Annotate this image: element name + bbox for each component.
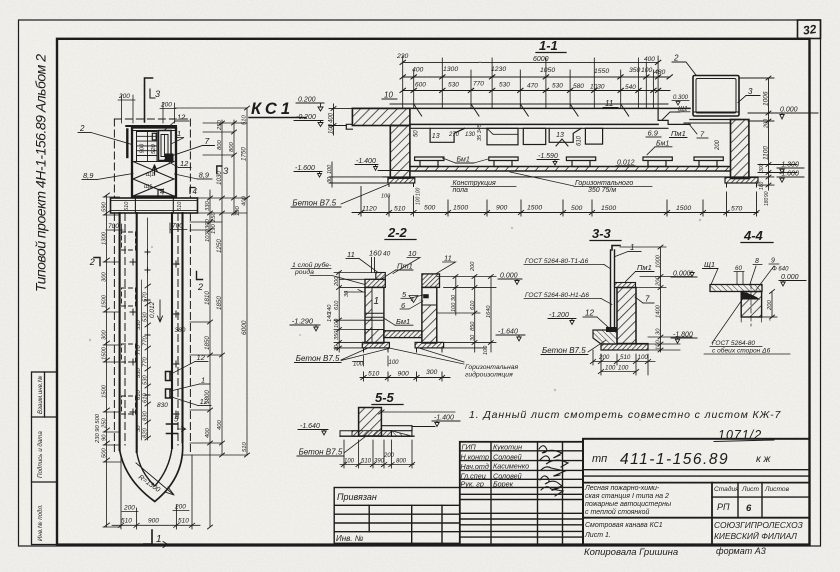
svg-text:7: 7 — [645, 295, 650, 304]
svg-text:35 345: 35 345 — [477, 123, 483, 141]
deck band long lines — [352, 104, 690, 128]
svg-text:-1.640: -1.640 — [498, 329, 518, 336]
svg-text:Соловей: Соловей — [493, 452, 522, 461]
svg-text:2-2: 2-2 — [387, 225, 408, 240]
svg-text:Копировала Гришина: Копировала Гришина — [584, 547, 678, 558]
svg-text:4-4: 4-4 — [743, 228, 764, 243]
left wall top small cap — [376, 273, 386, 280]
svg-text:400: 400 — [644, 56, 655, 63]
svg-text:-1.200: -1.200 — [549, 312, 569, 319]
left attribute strip boxes — [32, 372, 58, 545]
svg-text:250: 250 — [102, 418, 108, 429]
svg-text:350: 350 — [334, 330, 340, 340]
dashed center marks — [741, 284, 761, 326]
svg-text:510: 510 — [368, 371, 380, 378]
svg-text:1500: 1500 — [102, 346, 108, 360]
svg-text:270: 270 — [448, 132, 460, 138]
svg-text:520: 520 — [151, 144, 157, 154]
names table texts — [461, 443, 530, 489]
svg-text:0.000: 0.000 — [500, 273, 518, 280]
svg-text:3: 3 — [155, 89, 160, 99]
svg-text:200: 200 — [160, 102, 172, 109]
svg-text:1-1: 1-1 — [539, 38, 558, 53]
right wall top cap — [422, 274, 440, 288]
svg-text:190: 190 — [235, 206, 241, 216]
right entry: steps — [658, 108, 690, 124]
svg-text:610: 610 — [577, 135, 583, 146]
svg-text:100: 100 — [389, 360, 400, 366]
svg-text:510: 510 — [242, 442, 248, 452]
svg-text:ская станция I типа на 2: ская станция I типа на 2 — [585, 493, 669, 500]
svg-text:0,012: 0,012 — [149, 301, 156, 318]
svg-text:610: 610 — [470, 300, 476, 310]
svg-text:100: 100 — [327, 164, 333, 174]
svg-text:13: 13 — [556, 132, 564, 139]
anchor detail at wall base — [606, 327, 617, 332]
svg-text:1500: 1500 — [601, 205, 616, 212]
top dim chain lines — [390, 62, 670, 104]
dashed outline around head — [114, 119, 190, 453]
opening box middle1 — [487, 128, 518, 145]
inner drawing frame — [57, 39, 810, 545]
svg-text:1640: 1640 — [486, 305, 492, 318]
svg-text:540: 540 — [625, 84, 636, 91]
svg-text:1500: 1500 — [676, 205, 691, 212]
svg-text:2: 2 — [673, 54, 679, 63]
svg-text:Бетон В7.5: Бетон В7.5 — [296, 354, 340, 363]
svg-text:1. Данный лист смотреть совмес: 1. Данный лист смотреть совместно с лист… — [469, 409, 782, 421]
stage table — [714, 485, 790, 493]
svg-text:770: 770 — [473, 81, 484, 88]
dim tick slashes — [400, 60, 672, 92]
svg-text:4: 4 — [193, 187, 198, 196]
names table columns — [490, 442, 492, 545]
svg-text:1100: 1100 — [763, 146, 770, 160]
svg-text:Лесная пожарно-хими-: Лесная пожарно-хими- — [584, 485, 660, 492]
section cut marks 2 — [94, 258, 100, 266]
svg-text:КС1: КС1 — [251, 100, 294, 118]
title block outline — [583, 439, 810, 545]
niche dashed boxes on left wall — [122, 232, 136, 414]
svg-text:1500: 1500 — [527, 205, 542, 212]
svg-text:Щ1: Щ1 — [144, 184, 152, 190]
svg-text:3: 3 — [223, 166, 229, 177]
head box — [132, 128, 176, 197]
svg-text:Конструкция: Конструкция — [453, 180, 496, 187]
svg-text:1: 1 — [374, 296, 380, 307]
svg-text:1030: 1030 — [205, 228, 211, 242]
svg-text:900: 900 — [140, 143, 146, 153]
svg-text:1500: 1500 — [453, 205, 468, 212]
svg-text:700: 700 — [108, 223, 119, 230]
svg-text:1400: 1400 — [656, 304, 662, 318]
left wall hatched — [390, 126, 410, 179]
svg-text:7: 7 — [205, 136, 210, 146]
svg-text:Инв.№ подл.: Инв.№ подл. — [37, 504, 44, 541]
svg-text:ГОСТ 5264-80: ГОСТ 5264-80 — [712, 340, 755, 347]
svg-text:230: 230 — [396, 53, 409, 60]
svg-text:330: 330 — [136, 320, 142, 330]
right footing — [725, 178, 758, 184]
svg-text:30: 30 — [334, 344, 340, 351]
svg-text:500: 500 — [424, 205, 436, 212]
svg-text:300: 300 — [102, 330, 108, 340]
top plate — [710, 285, 762, 292]
right dim column — [739, 76, 797, 190]
svg-text:160: 160 — [759, 181, 765, 190]
svg-text:140: 140 — [327, 312, 333, 322]
svg-text:Н.контр: Н.контр — [461, 452, 489, 461]
floor hatch ticks — [415, 167, 729, 172]
svg-text:3-3: 3-3 — [592, 226, 612, 241]
svg-text:770: 770 — [143, 357, 149, 367]
scan specks — [89, 61, 771, 476]
svg-text:8: 8 — [755, 258, 759, 265]
svg-text:0.200: 0.200 — [298, 97, 316, 104]
svg-text:2: 2 — [79, 124, 85, 133]
left cap dim tail — [340, 286, 365, 288]
bottom dim row — [360, 372, 450, 381]
collar band — [111, 198, 198, 213]
left chain horizontal tails — [103, 197, 121, 527]
svg-text:12: 12 — [197, 353, 206, 362]
svg-text:ГОСТ 5264-80-Н1-Δ6: ГОСТ 5264-80-Н1-Δ6 — [525, 292, 589, 299]
svg-text:Горизонтального: Горизонтального — [575, 180, 633, 187]
svg-text:580: 580 — [573, 83, 584, 90]
svg-text:300: 300 — [426, 369, 438, 376]
far-left dim chain — [106, 195, 108, 527]
svg-text:590: 590 — [102, 202, 108, 212]
svg-text:6.9: 6.9 — [648, 129, 659, 138]
svg-text:530: 530 — [448, 82, 459, 89]
weld wedge — [742, 292, 761, 300]
interior dim chain — [147, 218, 149, 440]
names table outline — [460, 442, 583, 545]
svg-text:400: 400 — [217, 420, 223, 430]
svg-text:610: 610 — [334, 300, 340, 310]
dark fixture at niche base — [165, 154, 174, 162]
opening box middle2 — [523, 128, 545, 144]
svg-text:6: 6 — [746, 503, 752, 514]
big cell dividers — [583, 469, 810, 471]
svg-text:тп: тп — [592, 453, 607, 465]
svg-text:800: 800 — [396, 459, 407, 465]
svg-text:1: 1 — [201, 376, 205, 385]
svg-text:1: 1 — [177, 129, 181, 138]
svg-text:510: 510 — [361, 459, 372, 465]
svg-text:1006: 1006 — [763, 91, 770, 106]
interior floor slab — [384, 331, 422, 338]
svg-text:СОЮЗГИПРОЛЕСХОЗ: СОЮЗГИПРОЛЕСХОЗ — [714, 520, 803, 530]
svg-text:160: 160 — [369, 249, 382, 258]
grid verticals — [403, 56, 658, 112]
svg-text:100: 100 — [605, 365, 616, 372]
svg-text:1300: 1300 — [204, 390, 211, 404]
svg-text:1500: 1500 — [102, 384, 108, 398]
svg-text:ГИП: ГИП — [462, 443, 477, 452]
svg-text:100: 100 — [353, 362, 364, 368]
svg-text:1 слой рубе-: 1 слой рубе- — [292, 261, 332, 269]
svg-text:1850: 1850 — [216, 296, 223, 310]
svg-text:1: 1 — [630, 243, 634, 252]
svg-text:510: 510 — [242, 115, 248, 125]
svg-text:12: 12 — [180, 159, 189, 168]
svg-text:Щ1: Щ1 — [146, 172, 154, 178]
svg-text:30: 30 — [327, 176, 333, 183]
svg-text:пожарные автоцистерны: пожарные автоцистерны — [585, 501, 672, 508]
svg-text:Щ1: Щ1 — [704, 260, 715, 269]
svg-text:Типовой проект 4Н-1-156.89 Ал: Типовой проект 4Н-1-156.89 Альбом 2 — [33, 54, 49, 292]
svg-text:1000: 1000 — [656, 254, 662, 268]
svg-text:ГОСТ 5264-80-Т1-Δ6: ГОСТ 5264-80-Т1-Δ6 — [525, 258, 589, 265]
svg-text:1120: 1120 — [362, 206, 377, 213]
svg-text:400: 400 — [242, 196, 248, 206]
svg-text:530: 530 — [143, 312, 149, 322]
svg-text:8,9: 8,9 — [199, 171, 210, 180]
svg-text:1750: 1750 — [241, 147, 248, 161]
svg-text:-1.640: -1.640 — [300, 423, 320, 430]
svg-text:Бетон В7.5: Бетон В7.5 — [292, 199, 336, 208]
svg-text:1030: 1030 — [590, 84, 605, 91]
svg-text:1550: 1550 — [594, 68, 609, 75]
svg-text:130: 130 — [465, 132, 476, 138]
svg-text:350 75/м: 350 75/м — [588, 187, 616, 194]
svg-text:9: 9 — [771, 258, 775, 265]
base line — [340, 435, 414, 437]
svg-text:570: 570 — [143, 292, 149, 302]
svg-text:400: 400 — [412, 67, 424, 74]
svg-text:к ж: к ж — [756, 454, 772, 465]
cross braces — [133, 162, 174, 197]
svg-text:510: 510 — [124, 201, 130, 211]
svg-text:12: 12 — [585, 309, 594, 318]
svg-text:100: 100 — [334, 318, 340, 328]
page number box top-right — [798, 20, 821, 39]
svg-text:Бм1: Бм1 — [396, 317, 410, 326]
right footing — [415, 342, 444, 348]
left vertical bar near head — [126, 130, 128, 158]
svg-text:330: 330 — [205, 201, 211, 211]
wall hatched — [617, 288, 636, 344]
svg-text:390: 390 — [374, 459, 385, 465]
svg-text:470: 470 — [527, 83, 538, 90]
wall plus marks — [130, 259, 179, 417]
svg-text:510: 510 — [394, 206, 406, 213]
svg-text:Кукотин: Кукотин — [493, 443, 522, 452]
hatched block — [359, 408, 382, 437]
ladder niche — [159, 131, 172, 161]
C-brackets on right wall — [166, 372, 173, 399]
svg-text:1500: 1500 — [102, 294, 108, 308]
svg-text:300: 300 — [759, 163, 765, 172]
svg-text:Пм1: Пм1 — [637, 263, 652, 272]
pedestals Бм1 — [415, 157, 724, 167]
svg-text:КИЕВСКИЙ ФИЛИАЛ: КИЕВСКИЙ ФИЛИАЛ — [714, 530, 797, 541]
svg-text:90: 90 — [764, 191, 770, 197]
svg-text:480: 480 — [654, 69, 666, 76]
right dim column — [620, 245, 692, 352]
svg-text:411-1-156.89: 411-1-156.89 — [620, 451, 729, 468]
svg-text:900: 900 — [398, 371, 410, 378]
svg-text:Касименко: Касименко — [493, 462, 529, 471]
top plate — [615, 283, 636, 288]
description cell — [584, 485, 672, 539]
svg-text:200: 200 — [123, 505, 135, 512]
svg-text:3: 3 — [748, 87, 753, 96]
svg-text:с теплой стоянкой: с теплой стоянкой — [585, 508, 649, 516]
svg-text:510: 510 — [177, 201, 183, 211]
svg-text:Инв. №: Инв. № — [336, 534, 364, 543]
svg-text:100: 100 — [344, 459, 355, 465]
svg-text:530: 530 — [499, 82, 510, 89]
svg-text:1300: 1300 — [443, 66, 458, 73]
svg-text:Рук. гр: Рук. гр — [461, 480, 484, 489]
svg-text:30: 30 — [470, 334, 476, 341]
svg-text:11: 11 — [347, 250, 355, 259]
right dim columns — [437, 275, 496, 353]
opening box right — [585, 128, 602, 144]
svg-text:900: 900 — [496, 205, 508, 212]
svg-text:60: 60 — [735, 265, 742, 272]
svg-text:230 90 500: 230 90 500 — [95, 413, 101, 444]
svg-text:200: 200 — [118, 93, 130, 100]
svg-text:Подпись и дата: Подпись и дата — [37, 431, 44, 478]
pit walls — [120, 213, 183, 452]
svg-text:200: 200 — [383, 453, 395, 459]
svg-text:200: 200 — [174, 504, 186, 511]
svg-text:200: 200 — [715, 139, 721, 151]
svg-text:Бм1: Бм1 — [457, 157, 470, 164]
svg-text:-1.590: -1.590 — [538, 153, 558, 160]
svg-text:100: 100 — [416, 187, 422, 196]
svg-text:530: 530 — [143, 375, 149, 385]
svg-text:Бетон В7.5: Бетон В7.5 — [542, 346, 586, 355]
section marks 4 at collar — [158, 190, 163, 196]
right 200 dim — [771, 292, 773, 318]
svg-text:770: 770 — [143, 336, 149, 346]
deck diagonal marks — [414, 104, 629, 116]
svg-text:530: 530 — [136, 368, 142, 378]
svg-text:5-5: 5-5 — [375, 390, 395, 405]
svg-text:100: 100 — [416, 196, 422, 205]
svg-text:Пм1: Пм1 — [671, 129, 686, 138]
svg-text:190: 190 — [211, 224, 217, 234]
svg-text:Горизонтальная: Горизонтальная — [465, 364, 518, 371]
svg-text:610: 610 — [143, 393, 149, 403]
svg-text:30: 30 — [656, 328, 662, 335]
svg-text:Бетон В7.5: Бетон В7.5 — [299, 448, 343, 457]
svg-text:30: 30 — [136, 425, 142, 432]
svg-text:-1.600: -1.600 — [779, 171, 799, 178]
stairs — [137, 132, 158, 156]
bottom dims — [590, 350, 655, 375]
svg-text:250: 250 — [217, 120, 223, 131]
svg-text:100: 100 — [656, 340, 662, 350]
svg-text:200: 200 — [764, 118, 770, 129]
left dim column with 400/100 — [329, 104, 352, 135]
svg-text:1230: 1230 — [491, 66, 506, 73]
svg-text:50: 50 — [414, 130, 420, 137]
svg-text:300: 300 — [102, 272, 108, 282]
svg-text:200: 200 — [334, 276, 340, 287]
svg-text:90: 90 — [102, 434, 108, 441]
svg-text:роида: роида — [294, 268, 314, 276]
svg-text:12: 12 — [177, 113, 186, 122]
svg-text:200: 200 — [470, 261, 476, 272]
svg-text:формат А3: формат А3 — [716, 546, 766, 556]
svg-text:200: 200 — [656, 276, 662, 287]
bottom section mark 1 — [144, 530, 152, 544]
svg-text:200: 200 — [767, 300, 773, 311]
svg-text:200: 200 — [598, 354, 610, 361]
lower block hatched — [741, 292, 761, 318]
svg-text:850: 850 — [470, 321, 476, 331]
right wall hatched — [731, 120, 749, 179]
right dim chains — [175, 108, 247, 527]
box13 right — [549, 128, 581, 142]
svg-text:0.000: 0.000 — [673, 271, 691, 278]
left footing — [388, 178, 415, 183]
svg-text:10: 10 — [384, 91, 393, 100]
svg-text:пола: пола — [453, 187, 469, 194]
svg-text:Лист 1.: Лист 1. — [584, 532, 611, 539]
svg-text:Стадия: Стадия — [714, 485, 739, 493]
svg-text:с обеих сторон Δ6: с обеих сторон Δ6 — [712, 347, 771, 355]
svg-text:10: 10 — [408, 249, 417, 258]
svg-text:250: 250 — [211, 212, 217, 223]
svg-text:0.000: 0.000 — [781, 274, 799, 281]
svg-text:32: 32 — [802, 22, 817, 38]
svg-text:0.000: 0.000 — [780, 107, 798, 114]
svg-text:500: 500 — [571, 205, 583, 212]
svg-text:гидроизоляция: гидроизоляция — [465, 371, 513, 379]
svg-text:510: 510 — [121, 518, 132, 525]
svg-text:4: 4 — [160, 188, 165, 197]
svg-text:500: 500 — [102, 448, 108, 458]
svg-text:Лист: Лист — [741, 486, 759, 493]
svg-text:600: 600 — [415, 82, 426, 89]
svg-text:Ф 640: Ф 640 — [772, 267, 789, 273]
right wall body — [422, 287, 437, 343]
svg-text:Привязан: Привязан — [337, 492, 377, 502]
svg-text:350: 350 — [629, 67, 641, 74]
openings row: box13 left — [430, 128, 465, 142]
footing sloped — [593, 330, 617, 344]
slab left nose — [346, 124, 352, 129]
svg-text:800: 800 — [217, 140, 223, 150]
svg-text:1850: 1850 — [204, 336, 211, 350]
step slab right — [381, 426, 412, 431]
steel post with top hook — [612, 246, 620, 251]
left wall top plate — [365, 279, 385, 287]
pit floor — [383, 167, 758, 177]
svg-text:610: 610 — [136, 390, 142, 400]
small fixture box top middle — [152, 133, 156, 140]
svg-text:400: 400 — [205, 428, 211, 438]
svg-text:770: 770 — [136, 345, 142, 355]
svg-text:100: 100 — [641, 67, 653, 74]
signature scribbles — [539, 446, 568, 496]
svg-text:100: 100 — [329, 123, 335, 134]
svg-text:13: 13 — [432, 133, 440, 140]
svg-text:30: 30 — [344, 290, 350, 297]
svg-text:180: 180 — [764, 197, 770, 206]
svg-text:510: 510 — [178, 518, 189, 525]
svg-text:100: 100 — [381, 194, 391, 200]
svg-text:1: 1 — [156, 534, 162, 545]
svg-text:530: 530 — [552, 83, 563, 90]
svg-text:1071/2: 1071/2 — [718, 428, 762, 442]
